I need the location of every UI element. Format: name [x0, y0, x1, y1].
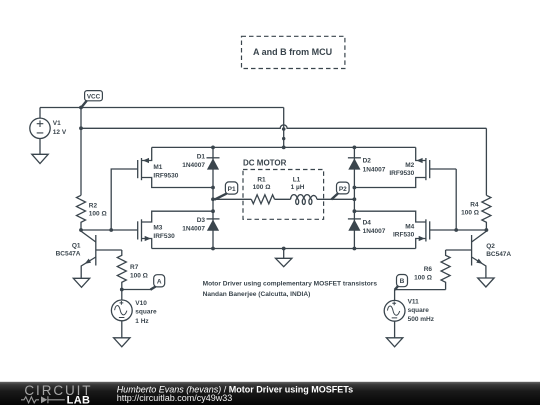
svg-text:100 Ω: 100 Ω [253, 184, 271, 191]
svg-text:R1: R1 [257, 177, 266, 184]
transistor Q1 emitter [81, 257, 96, 278]
svg-text:1N4007: 1N4007 [363, 228, 386, 235]
svg-text:500 mHz: 500 mHz [408, 316, 435, 323]
svg-text:12 V: 12 V [53, 129, 67, 136]
transistor Q1 base lead [96, 249, 122, 251]
arrow Q2 emitter [476, 259, 483, 264]
wire bridge ground stub [283, 249, 285, 259]
svg-text:V11: V11 [408, 299, 420, 306]
transistor Q1 collector [81, 230, 96, 242]
flag P2 [331, 182, 349, 199]
transistor M3 [141, 219, 143, 241]
wire left column [80, 108, 82, 196]
svg-text:BC547A: BC547A [56, 250, 81, 257]
arrow M4 [419, 236, 425, 241]
wire right diode column [353, 147, 355, 248]
svg-text:L1: L1 [293, 177, 301, 184]
svg-text:1N4007: 1N4007 [363, 166, 386, 173]
svg-text:R2: R2 [89, 202, 98, 209]
svg-text:VCC: VCC [87, 93, 101, 100]
svg-text:V10: V10 [135, 300, 147, 307]
svg-text:D3: D3 [197, 217, 206, 224]
transistor M2 [425, 158, 427, 180]
svg-text:100 Ω: 100 Ω [414, 274, 432, 281]
wire gate branch left [111, 169, 138, 230]
voltage source V11 [384, 300, 405, 321]
inductor L1 [291, 195, 317, 200]
svg-text:P2: P2 [339, 186, 347, 193]
wire right column [485, 128, 487, 195]
svg-text:http://circuitlab.com/cy49w33: http://circuitlab.com/cy49w33 [117, 393, 233, 403]
svg-text:D1: D1 [197, 153, 206, 160]
svg-text:square: square [408, 307, 430, 314]
flag B [395, 275, 408, 290]
wire V11 bottom [394, 321, 396, 338]
resistor R2 [77, 195, 86, 230]
svg-text:Q2: Q2 [486, 243, 495, 250]
transistor Q2 base bar [471, 235, 473, 266]
svg-text:100 Ω: 100 Ω [89, 211, 107, 218]
svg-text:V1: V1 [53, 120, 61, 127]
wire node A stub [122, 289, 151, 291]
wire gate bus right [430, 229, 487, 231]
svg-text:B: B [400, 278, 405, 285]
svg-text:M2: M2 [405, 162, 414, 169]
wire bridge top line [152, 146, 416, 148]
resistor R4 [482, 195, 491, 230]
transistor M1 [141, 158, 143, 180]
svg-text:P1: P1 [228, 186, 236, 193]
ground under V1 [32, 154, 48, 163]
svg-text:Q1: Q1 [72, 242, 81, 249]
wire V11 top [394, 290, 396, 301]
dashed box A and B from MCU [242, 36, 345, 68]
transistor Q1 base bar [95, 235, 97, 266]
svg-text:A and B from MCU: A and B from MCU [253, 47, 332, 57]
svg-text:100 Ω: 100 Ω [461, 210, 479, 217]
ground under bridge [276, 258, 292, 266]
ground under Q2 [478, 278, 494, 287]
svg-text:IRF530: IRF530 [393, 232, 415, 239]
svg-text:BC547A: BC547A [486, 251, 511, 258]
flag VCC [81, 91, 102, 108]
svg-text:M4: M4 [405, 223, 414, 230]
svg-text:Nandan Banerjee (Calcutta, IND: Nandan Banerjee (Calcutta, INDIA) [203, 291, 311, 298]
diode D2 cathode bar [348, 157, 361, 159]
voltage source V10 [111, 300, 132, 321]
wire L1 to node P2 [317, 198, 355, 200]
diode D1 cathode bar [207, 157, 220, 159]
arrow M1 [143, 158, 149, 163]
wire VCC rail top [40, 107, 284, 109]
wire left diode column [212, 147, 214, 248]
junction dots [79, 106, 83, 110]
wire rail2 with hop [81, 125, 486, 128]
ground under V11 [386, 338, 402, 347]
svg-text:1N4007: 1N4007 [182, 162, 205, 169]
resistor R7 [117, 250, 126, 290]
svg-text:M1: M1 [153, 164, 162, 171]
svg-text:D4: D4 [363, 220, 372, 227]
svg-text:1N4007: 1N4007 [182, 226, 205, 233]
svg-text:R7: R7 [130, 264, 139, 271]
wire gate bus left [81, 229, 138, 231]
svg-text:IRF9530: IRF9530 [389, 170, 414, 177]
diode D4 body [348, 220, 360, 231]
wire bridge bottom line [152, 248, 416, 250]
svg-text:Motor Driver using complementa: Motor Driver using complementary MOSFET … [203, 281, 378, 288]
ground under Q1 [73, 278, 89, 287]
svg-text:LAB: LAB [67, 394, 91, 405]
diode D3 cathode bar [207, 218, 220, 220]
svg-text:DC MOTOR: DC MOTOR [243, 159, 287, 168]
transistor Q2 emitter [472, 257, 486, 278]
wire center drop to bridge top [283, 108, 285, 148]
wire V10 bottom [121, 321, 123, 338]
svg-text:square: square [135, 309, 157, 316]
svg-text:D2: D2 [363, 158, 372, 165]
flag A [150, 275, 164, 290]
wire V10 top [121, 290, 123, 301]
svg-text:100 Ω: 100 Ω [130, 272, 148, 279]
svg-text:IRF9530: IRF9530 [153, 173, 178, 180]
diode D2 body [348, 158, 360, 169]
wire R1 to L1 [275, 198, 291, 200]
diode D4 cathode bar [348, 218, 361, 220]
transistor M4 [425, 219, 427, 241]
ground under V10 [114, 338, 130, 347]
diode D1 body [207, 158, 219, 169]
arrow Q1 emitter [85, 259, 92, 264]
resistor R6 [441, 250, 450, 290]
resistor R1 [251, 195, 274, 204]
dashed box DC MOTOR [243, 170, 324, 220]
wire gate branch right [455, 169, 457, 230]
arrow M2 [416, 158, 422, 163]
diode D3 body [207, 220, 219, 231]
wire R6 to node B [395, 289, 446, 291]
transistor Q2 collector [472, 230, 487, 242]
flag P1 [215, 182, 238, 200]
svg-text:1 Hz: 1 Hz [135, 318, 149, 325]
svg-text:A: A [157, 278, 162, 285]
svg-text:M3: M3 [153, 224, 162, 231]
wire motor node P1 to R1 [213, 198, 251, 200]
svg-text:IRF530: IRF530 [153, 233, 175, 240]
voltage source V1 [30, 118, 50, 138]
svg-text:R4: R4 [470, 202, 479, 209]
transistor Q2 base lead [446, 249, 472, 251]
arrow M3 [145, 236, 151, 241]
svg-text:R6: R6 [424, 266, 433, 273]
svg-text:1 µH: 1 µH [291, 184, 305, 191]
